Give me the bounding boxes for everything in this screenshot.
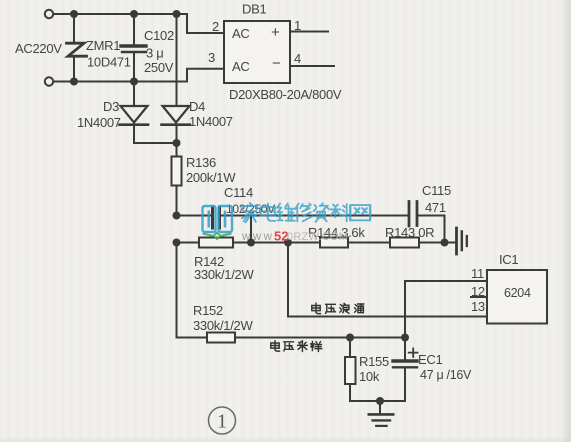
svg-text:2: 2 bbox=[212, 19, 219, 34]
svg-text:1N4007: 1N4007 bbox=[189, 114, 233, 129]
node sampling EC1 bbox=[401, 334, 409, 342]
resistor R155 bbox=[345, 357, 356, 384]
node D3 D4 join bbox=[173, 139, 181, 147]
svg-text:C102: C102 bbox=[144, 28, 174, 43]
capacitor EC1 bbox=[393, 359, 417, 362]
svg-text:1: 1 bbox=[217, 411, 227, 433]
wire D4 top lead bbox=[176, 14, 178, 106]
resistor R144 bbox=[320, 238, 348, 248]
svg-text:3 μ: 3 μ bbox=[146, 46, 163, 61]
resistor R136 bbox=[172, 157, 182, 186]
ground bottom earth bbox=[369, 413, 393, 416]
svg-text:R152: R152 bbox=[193, 303, 223, 318]
svg-text:D3: D3 bbox=[103, 99, 119, 114]
svg-text:11: 11 bbox=[471, 266, 484, 281]
svg-text:AC220V: AC220V bbox=[15, 41, 62, 56]
node bottom ground bbox=[376, 397, 384, 405]
svg-text:4: 4 bbox=[294, 51, 301, 66]
varistor ZMR1 bbox=[67, 43, 87, 56]
wire ZMR1 bottom lead bbox=[73, 57, 75, 82]
svg-text:200k/1W: 200k/1W bbox=[186, 170, 236, 185]
svg-text:C114: C114 bbox=[224, 185, 253, 200]
wire row2 right to ground bbox=[419, 242, 455, 244]
label surge net 电压浪涌 bbox=[312, 303, 364, 313]
capacitor C114 bbox=[211, 207, 214, 228]
capacitor C102 bbox=[121, 44, 146, 47]
svg-text:250V: 250V bbox=[144, 60, 174, 75]
wire pin 11 line bbox=[405, 281, 487, 338]
wire row2 left bbox=[177, 242, 200, 244]
wire D3 bottom lead joining D4 bbox=[134, 126, 177, 143]
wire row2 between R144 R143 bbox=[348, 242, 390, 244]
svg-text:1N4007: 1N4007 bbox=[77, 115, 121, 130]
capacitor C115 bbox=[408, 202, 411, 227]
wire surge branch down and right to pin 13 bbox=[288, 243, 487, 317]
node bottom C102 D3 bbox=[130, 78, 138, 86]
svg-text:6204: 6204 bbox=[504, 286, 531, 300]
wire DB1 pin 1 bbox=[290, 31, 328, 33]
svg-text:12: 12 bbox=[471, 284, 485, 299]
svg-text:R136: R136 bbox=[186, 155, 216, 170]
svg-text:−: − bbox=[272, 55, 281, 72]
svg-text:+: + bbox=[271, 24, 280, 41]
wire sampling row bbox=[235, 337, 405, 339]
svg-text:471: 471 bbox=[425, 200, 446, 215]
wire row1 long segment to C115 bbox=[221, 215, 408, 217]
wire row1-row2 connector bbox=[250, 216, 252, 243]
wire C102 top lead bbox=[133, 14, 135, 45]
svg-text:IC1: IC1 bbox=[499, 252, 518, 267]
svg-text:3: 3 bbox=[208, 50, 215, 65]
wire bottom AC row with corner to DB1 pin 3 bbox=[54, 69, 225, 82]
wire EC1 top lead bbox=[404, 338, 406, 361]
wire DB1 pin 4 bbox=[290, 65, 334, 67]
svg-text:10D471: 10D471 bbox=[87, 55, 131, 70]
svg-text:1: 1 bbox=[294, 18, 301, 33]
svg-text:330k/1/2W: 330k/1/2W bbox=[194, 267, 254, 282]
wire left column down to sampling row bbox=[177, 243, 208, 338]
watermark url bbox=[241, 229, 348, 244]
capacitor EC1 plus sign bbox=[409, 348, 418, 357]
svg-text:AC: AC bbox=[232, 26, 249, 41]
resistor R142 bbox=[199, 238, 233, 248]
node sampling R155 bbox=[346, 334, 354, 342]
diode D4 bbox=[163, 106, 190, 123]
bridge rectifier DB1 bbox=[224, 21, 290, 83]
node top ZMR1 bbox=[70, 10, 78, 18]
wire R136 to row1 bbox=[176, 186, 178, 216]
svg-text:D4: D4 bbox=[189, 99, 205, 114]
svg-text:R155: R155 bbox=[359, 354, 389, 369]
wire C102 bottom lead bbox=[133, 54, 135, 82]
wire EC1 bottom lead bbox=[404, 369, 406, 402]
wire pin 12 stub bbox=[471, 296, 487, 298]
svg-text:330k/1/2W: 330k/1/2W bbox=[193, 318, 253, 333]
figure number 1 bbox=[209, 407, 236, 434]
wire D3 top lead bbox=[133, 82, 135, 106]
node row2 C114 branch bbox=[247, 239, 255, 247]
wire R155 top lead bbox=[349, 338, 351, 358]
ground right chassis bbox=[455, 228, 458, 254]
svg-text:R143 0R: R143 0R bbox=[385, 225, 434, 240]
svg-text:ZMR1: ZMR1 bbox=[86, 38, 120, 53]
wire row2 middle bbox=[233, 242, 320, 244]
wire bottom row to ground bbox=[350, 401, 405, 414]
svg-text:D20XB80-20A/800V: D20XB80-20A/800V bbox=[229, 87, 342, 102]
resistor R143 bbox=[390, 238, 419, 248]
label sampling net 电压采样 bbox=[271, 341, 322, 352]
svg-text:C115: C115 bbox=[422, 183, 451, 198]
wire D4 bottom lead bbox=[176, 126, 178, 143]
node row2 C115 ground bbox=[441, 239, 449, 247]
diode D3 bbox=[121, 106, 148, 123]
node top D4 bbox=[173, 10, 181, 18]
wire C115 to row2 junction bbox=[418, 216, 445, 243]
svg-text:0RZW.COM: 0RZW.COM bbox=[287, 231, 348, 243]
wire row1 left segment bbox=[177, 215, 212, 217]
wire ZMR1 top lead bbox=[73, 14, 75, 42]
svg-text:AC: AC bbox=[232, 59, 249, 74]
svg-text:13: 13 bbox=[471, 299, 485, 314]
wire R155 bottom lead bbox=[349, 384, 351, 401]
resistor R152 bbox=[207, 333, 235, 343]
wire top AC row with corner to DB1 pin 2 bbox=[54, 14, 225, 33]
node row1 left bbox=[173, 212, 181, 220]
watermark text 家电维修资料网 bbox=[242, 203, 371, 222]
IC U1 bbox=[487, 270, 547, 324]
node bottom ZMR1 bbox=[70, 78, 78, 86]
terminal lower AC input bbox=[45, 77, 53, 85]
svg-text:47 μ /16V: 47 μ /16V bbox=[420, 368, 472, 382]
node top C102 bbox=[130, 10, 138, 18]
terminal upper AC input bbox=[45, 10, 53, 18]
svg-text:10k: 10k bbox=[359, 369, 380, 384]
svg-text:DB1: DB1 bbox=[242, 2, 266, 17]
node row2 left bbox=[173, 239, 181, 247]
wire into R136 bbox=[176, 143, 178, 157]
node row2 surge branch bbox=[284, 239, 292, 247]
watermark logo bbox=[203, 206, 233, 241]
svg-text:EC1: EC1 bbox=[418, 352, 442, 367]
